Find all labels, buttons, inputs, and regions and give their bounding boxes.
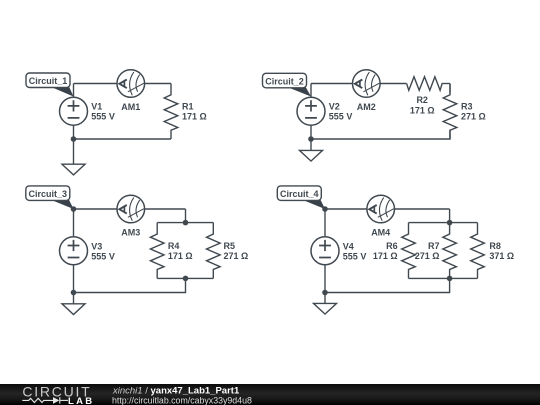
wire V1 bottom lead <box>73 124 75 139</box>
junction C4 top node <box>322 206 328 212</box>
label R3 value 271 &#937; <box>461 102 486 122</box>
wire C2 top right <box>442 83 450 85</box>
svg-text:R8: R8 <box>489 241 501 251</box>
svg-text:AM1: AM1 <box>121 102 140 112</box>
resistor R1 <box>164 84 178 140</box>
wire V2 bottom lead <box>310 124 312 139</box>
svg-text:555 V: 555 V <box>343 251 367 261</box>
junction C3 parallel bottom <box>183 276 189 282</box>
label V4 value 555 V <box>343 241 367 261</box>
wire V2 top lead <box>310 84 312 99</box>
ground <box>300 150 323 161</box>
ammeter AM3 <box>117 195 145 223</box>
label R4 value 171 &#937; <box>168 241 193 261</box>
label R7 value 271 &#937; <box>415 241 440 261</box>
wire V3 top lead <box>73 209 75 238</box>
svg-text:AM2: AM2 <box>357 102 376 112</box>
node Circuit_1 <box>26 73 70 88</box>
wire C2 top left <box>311 83 407 85</box>
wire C4 meter to parallel top <box>449 209 451 223</box>
voltage source V2 555 V <box>297 97 325 125</box>
voltage source V1 555 V <box>60 97 88 125</box>
wire C4 top <box>325 208 450 210</box>
junction C4 ground node <box>322 290 328 296</box>
svg-text:555 V: 555 V <box>91 251 115 261</box>
junction C3 top node <box>71 206 77 212</box>
wire C4 parallel top bar <box>409 222 478 224</box>
logo resistor-diode art <box>22 397 68 403</box>
svg-text:Circuit_1: Circuit_1 <box>29 76 68 86</box>
label R5 value 271 &#937; <box>224 241 249 261</box>
label R1 value 171 &#937; <box>182 102 207 122</box>
node flag Circuit_4 tail <box>301 199 325 209</box>
svg-text:AM3: AM3 <box>121 227 140 237</box>
wire C3 meter to parallel top <box>185 209 187 223</box>
wire to ground <box>73 139 75 164</box>
svg-text:R6: R6 <box>386 241 398 251</box>
label R8 value 371 &#937; <box>489 241 514 261</box>
wire C4 bottom return <box>325 278 450 292</box>
ammeter AM2 <box>353 70 381 98</box>
svg-text:R2: R2 <box>416 95 428 105</box>
ground <box>62 304 85 315</box>
wire C3 bottom return <box>74 278 186 292</box>
resistor R2 <box>407 77 443 91</box>
resistor R3 <box>443 84 457 140</box>
svg-text:271 Ω: 271 Ω <box>461 112 486 122</box>
wire V3 bottom lead <box>73 264 75 293</box>
svg-text:555 V: 555 V <box>329 112 353 122</box>
label R6 value 171 &#937; <box>373 241 398 261</box>
svg-text:http://circuitlab.com/cabyx33y: http://circuitlab.com/cabyx33y9d4u8 <box>112 395 252 405</box>
svg-text:171 Ω: 171 Ω <box>410 106 435 116</box>
wire C2 right branch + bottom <box>311 84 450 140</box>
voltage source V3 555 V <box>60 237 88 265</box>
svg-text:R4: R4 <box>168 241 180 251</box>
label V2 value 555 V <box>329 102 353 122</box>
svg-text:R1: R1 <box>182 102 194 112</box>
svg-text:Circuit_2: Circuit_2 <box>265 77 304 87</box>
wire V4 bottom lead <box>324 264 326 293</box>
svg-text:V1: V1 <box>91 102 102 112</box>
wire C3 top <box>74 208 186 210</box>
label R2 value 171 &#937; <box>410 95 435 116</box>
svg-text:171 Ω: 171 Ω <box>182 112 207 122</box>
resistor R5 <box>207 223 221 279</box>
svg-text:V4: V4 <box>343 241 354 251</box>
svg-text:171 Ω: 171 Ω <box>373 251 398 261</box>
junction C4 parallel bottom <box>447 276 453 282</box>
svg-text:R3: R3 <box>461 102 473 112</box>
svg-text:371 Ω: 371 Ω <box>489 251 514 261</box>
svg-text:AM4: AM4 <box>371 227 390 237</box>
wire to ground <box>310 139 312 150</box>
wire C3 parallel top bar <box>157 222 213 224</box>
label V3 value 555 V <box>91 241 115 261</box>
svg-text:V3: V3 <box>91 241 102 251</box>
svg-text:R7: R7 <box>428 241 440 251</box>
ground <box>62 164 85 175</box>
svg-text:171 Ω: 171 Ω <box>168 251 193 261</box>
svg-text:Circuit_4: Circuit_4 <box>280 189 319 199</box>
node flag Circuit_3 tail <box>50 199 74 209</box>
wire to ground <box>324 293 326 304</box>
svg-text:271 Ω: 271 Ω <box>224 251 249 261</box>
svg-text:271 Ω: 271 Ω <box>415 251 440 261</box>
svg-text:555 V: 555 V <box>91 112 115 122</box>
junction C3 ground node <box>71 290 77 296</box>
node flag Circuit_1 tail <box>50 87 74 97</box>
resistor R7 <box>443 223 457 279</box>
svg-text:Circuit_3: Circuit_3 <box>29 189 68 199</box>
voltage source V4 555 V <box>311 237 339 265</box>
junction C4 parallel top <box>447 220 453 226</box>
wire C1 bottom <box>74 138 172 140</box>
wire C4 parallel bottom bar <box>409 277 478 279</box>
wire V1 top lead <box>73 84 75 99</box>
label V1 value 555 V <box>91 102 115 122</box>
ground <box>314 303 337 314</box>
resistor R6 <box>402 223 416 279</box>
resistor R8 <box>471 223 485 279</box>
node Circuit_4 <box>277 186 321 201</box>
ammeter AM1 <box>117 70 145 98</box>
junction C2 ground node <box>308 136 314 142</box>
svg-text:V2: V2 <box>329 102 340 112</box>
svg-text:R5: R5 <box>224 241 236 251</box>
node flag Circuit_2 tail <box>287 87 312 97</box>
ammeter AM4 <box>367 195 395 223</box>
svg-text:LAB: LAB <box>68 396 94 405</box>
resistor R4 <box>150 223 164 279</box>
wire C3 parallel bottom bar <box>157 277 213 279</box>
wire V4 top lead <box>324 209 326 238</box>
wire to ground <box>73 293 75 304</box>
wire C1 top <box>74 83 172 85</box>
node Circuit_2 <box>263 73 307 88</box>
junction C1 ground node <box>71 136 77 142</box>
node Circuit_3 <box>26 186 70 201</box>
junction C3 parallel top <box>183 220 189 226</box>
